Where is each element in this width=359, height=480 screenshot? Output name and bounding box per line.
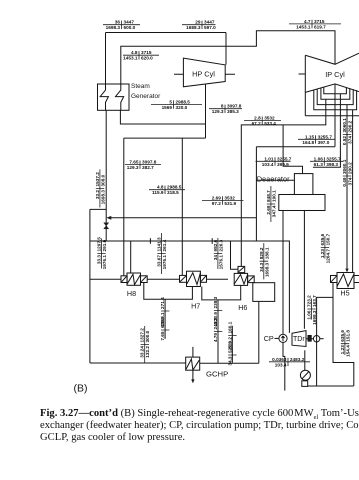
svg-text:2.69: 2.69 [212,195,222,200]
rotated label H7 water 33.67|1141.3 [156,233,167,274]
wire main steam horizontal [106,32,227,34]
wire H5 drain to condenser [333,283,354,387]
rotated label LP line 0.49|3060.1 [342,159,353,192]
label L5 cold reheat 5|2988.5 [151,100,202,111]
svg-text:H7: H7 [191,302,200,311]
svg-text:GCHP: GCHP [206,370,228,379]
svg-text:163.7: 163.7 [312,295,317,307]
svg-text:629.3: 629.3 [160,316,165,328]
wire drain downcomer right [231,326,233,363]
svg-text:H8: H8 [127,289,136,298]
wire drain downcomer mid [217,300,219,363]
svg-text:3715: 3715 [141,50,152,55]
svg-text:397.0: 397.0 [318,140,330,145]
svg-text:2.69: 2.69 [266,205,271,215]
rotated label feedwater spray 33.24|1327.2 [140,326,151,363]
svg-text:398.3: 398.3 [326,162,338,167]
svg-text:IP Cyl: IP Cyl [325,70,345,79]
drain H7 to H6 [202,285,241,300]
svg-text:TDr: TDr [293,336,305,343]
heater H5 [337,273,354,289]
label L1 main steam 36|3447 [103,20,140,31]
svg-text:347.4: 347.4 [271,205,276,217]
svg-text:3447: 3447 [204,20,215,25]
svg-text:226.3: 226.3 [218,239,223,251]
svg-text:374: 374 [348,136,353,144]
svg-text:1453.1: 1453.1 [296,24,311,29]
coupling shaft 2 [320,338,324,340]
svg-text:300.0: 300.0 [145,330,150,342]
svg-text:1141.3: 1141.3 [156,237,161,251]
label L7 H8 inlet 7.65|3097.8 [125,160,161,171]
svg-text:150.7: 150.7 [325,233,330,245]
svg-text:3255.7: 3255.7 [318,134,333,139]
svg-text:1569: 1569 [162,105,173,110]
svg-text:36: 36 [115,20,121,25]
svg-text:4.8: 4.8 [157,185,164,190]
svg-text:Generator: Generator [131,93,161,100]
svg-text:635.6: 635.6 [340,330,345,342]
svg-text:151.8: 151.8 [345,330,350,342]
H6 inlet valve box [238,266,245,272]
wire deaerator left inlet [256,179,294,181]
svg-text:H6: H6 [238,303,247,312]
heating surface bolt 1 [100,84,108,110]
svg-text:1.01: 1.01 [264,156,274,161]
svg-text:1576.1: 1576.1 [218,255,223,270]
heating surface bolt 2 [116,84,124,110]
svg-text:828.2: 828.2 [259,247,264,259]
wire LP steam to H5 [346,105,348,272]
H6 valve box diagonal [239,267,244,272]
heater H8 [127,273,141,285]
rotated label LP line 0.52|3060.1 [342,118,353,151]
svg-text:723.2: 723.2 [307,295,312,307]
condenser drain box [302,381,308,387]
wire TDr exhaust [304,350,306,370]
gas line arrowhead [191,379,194,383]
H6 right tab [248,276,255,283]
wire main steam drop into HP cylinder [225,33,227,65]
wire condenser to right [308,385,354,387]
svg-text:597.0: 597.0 [204,25,216,30]
H6 right tab diagonal [248,277,253,282]
H5 zigzag [337,274,354,287]
svg-text:129.3: 129.3 [212,109,224,114]
label L11 deaerator steam 1.06|3255.7 [310,156,343,167]
heater H6 [234,273,247,285]
coupling block [308,336,311,342]
deaerator head [294,174,313,195]
svg-text:1698.3: 1698.3 [264,262,269,277]
svg-text:600.0: 600.0 [124,25,136,30]
rotated label H8 water 33.3|1297.5 [96,237,107,270]
svg-text:3060.1: 3060.1 [342,159,347,174]
wire H6 second feed [231,241,239,269]
svg-text:33.67: 33.67 [156,255,161,267]
wire feedwater heater run H8 [90,278,121,280]
svg-text:385.3: 385.3 [227,109,239,114]
wire feedwater run H7-H6 [207,278,229,280]
rotated label H6 water 34|982.6 [213,238,224,269]
gas cooler GCHP [186,357,200,370]
wire condensate riser right [317,297,333,386]
rotated label drain split 7.65|629.3 [160,316,169,341]
svg-text:320.0: 320.0 [176,105,188,110]
steam generator SG [98,84,130,110]
wire gas line through GCHP [192,347,194,381]
svg-text:848.7: 848.7 [266,190,271,202]
label L12 TDr steam 2.69|3532 [202,195,244,206]
svg-text:164.8: 164.8 [302,140,314,145]
deaerator tank [279,195,325,211]
wire deaerator top inlet [283,125,302,174]
svg-text:67.2: 67.2 [252,121,262,126]
svg-text:399.9: 399.9 [277,162,289,167]
wire condensate bottom run [90,362,186,364]
caption [40,408,359,443]
IP nested duct U2 [317,89,353,105]
svg-text:619.7: 619.7 [314,24,326,29]
svg-text:2483.2: 2483.2 [290,357,305,362]
heater H7 [187,271,201,286]
svg-text:0.0363: 0.0363 [272,357,287,362]
wire feedwater run H8-H7 [147,278,179,280]
svg-text:7.65: 7.65 [129,160,139,165]
label L3 hot reheat right 4.7|3715 [289,19,341,30]
svg-text:522.2: 522.2 [227,341,232,353]
coupling circle [313,336,319,342]
CP dash [274,337,278,339]
wire CP discharge [283,343,285,391]
wire spray line with arrow [108,217,256,219]
drain H8 to H7 [144,283,193,300]
wire IP extraction to deaerator manifold [334,84,336,147]
arrowhead spray [106,216,111,220]
drain split stub [164,299,166,338]
valve X on feedwater riser [104,223,109,229]
svg-text:HP Cyl: HP Cyl [192,70,215,79]
label L9 IP extraction 1.15|3255.7 [298,134,335,145]
svg-text:0.49: 0.49 [342,177,347,187]
H7 left tab [180,275,187,282]
H6 zigzag [234,275,247,285]
svg-text:1.06: 1.06 [314,156,324,161]
svg-text:33.24: 33.24 [140,346,145,358]
wire IP extraction to H6 [241,99,325,266]
label L4 hot reheat 4.8|3715 [123,50,159,61]
wire tank to CP [282,211,284,335]
IP exhaust tent [305,84,359,93]
rotated label H7 drain 1220.9|238.3 [213,296,222,326]
wire extraction to H7 [181,138,183,275]
svg-text:1297.5: 1297.5 [96,237,101,252]
turbine IP cylinder [305,53,359,64]
svg-text:2988.5: 2988.5 [167,185,182,190]
svg-text:291.0: 291.0 [102,239,107,251]
svg-text:261.4: 261.4 [162,239,167,251]
H8 left tab diagonal [122,276,127,281]
svg-text:2.8: 2.8 [254,116,261,121]
svg-text:1.15: 1.15 [305,134,315,139]
svg-text:29: 29 [195,20,201,25]
svg-text:1.06: 1.06 [307,310,312,320]
wire cold reheat to SG [120,110,205,124]
svg-text:Deaerator: Deaerator [257,174,290,183]
svg-text:3060.1: 3060.1 [342,118,347,133]
svg-text:103.4: 103.4 [275,362,287,367]
svg-text:533.4: 533.4 [264,121,276,126]
label L8 H7 inlet 4.8|2988.5 [149,185,185,196]
svg-text:620.0: 620.0 [141,56,153,61]
svg-text:190.1: 190.1 [271,190,276,202]
svg-text:188.1: 188.1 [264,247,269,259]
wire HP exhaust downcomer [205,84,207,138]
svg-text:3532: 3532 [264,116,275,121]
svg-text:531.9: 531.9 [224,201,236,206]
wire spray feed into H8 shell [130,241,132,273]
label L10 deaerator steam 1.01|3255.7 [256,156,292,167]
svg-text:34.3: 34.3 [227,356,232,366]
svg-text:2988.5: 2988.5 [176,100,191,105]
svg-text:Steam: Steam [131,83,150,90]
rotated label H5 drain 1.23|635.6 [340,330,351,357]
tick crossing 1 [149,238,151,244]
svg-text:318.5: 318.5 [167,190,179,195]
svg-text:3447: 3447 [124,20,135,25]
svg-text:3715: 3715 [314,19,325,24]
wire hot reheat from steam generator [121,31,335,84]
H7 right tab diagonal [201,276,206,282]
rotated label deaerator outlet 2.69|848.7 [266,186,277,222]
rotated label H5 water 34.3|828.2 [259,243,270,279]
svg-text:248.2: 248.2 [213,317,218,329]
svg-text:290.2: 290.2 [348,120,353,132]
svg-text:1698.3: 1698.3 [312,310,317,325]
wire H6 valve to heater [240,272,242,275]
H8 zigzag [127,274,140,284]
wire feedwater jog [90,208,106,210]
svg-text:5: 5 [169,100,172,105]
coupling shaft [306,338,313,340]
svg-text:33.2: 33.2 [95,190,100,200]
svg-text:3532: 3532 [224,195,235,200]
rotated label CP inlet 1.06|723.2 [307,295,318,325]
H6 drain cooler box [253,283,275,302]
svg-text:132.2: 132.2 [145,346,150,358]
rotated label condensate 1.23|635.6 [320,233,331,263]
H8 left tab [121,276,127,283]
svg-text:34: 34 [213,255,218,261]
svg-text:8: 8 [221,104,224,109]
svg-text:115.9: 115.9 [152,190,164,195]
svg-text:33.3: 33.3 [96,255,101,265]
svg-text:1264.7: 1264.7 [325,249,330,264]
wire tank to TDr condenser [303,211,305,329]
wire extraction manifold [124,137,206,139]
svg-text:1327.2: 1327.2 [140,328,145,343]
svg-text:4.8: 4.8 [131,50,138,55]
svg-text:H5: H5 [340,289,349,298]
condenser diagonal [302,372,309,379]
H7 right tab [200,275,206,282]
svg-text:61.3: 61.3 [314,162,324,167]
label L13 TDr exhaust 0.0363|2483.2 [269,357,310,368]
svg-text:374: 374 [348,177,353,185]
svg-text:1.23: 1.23 [340,345,345,355]
H5 left tab diagonal [331,276,336,282]
svg-text:1976.1: 1976.1 [162,255,167,270]
svg-text:97.2: 97.2 [212,201,222,206]
rotated label GCHP line 4.79|248.2 [213,317,222,342]
wire deaerator manifold downcomer [255,147,257,241]
svg-text:7.65: 7.65 [160,331,165,341]
label L6 extraction 8|3097.8 [209,104,242,115]
svg-text:1688.3: 1688.3 [186,25,201,30]
IP shaft tick [299,73,306,75]
svg-text:238.3: 238.3 [213,296,218,308]
svg-text:271.4: 271.4 [160,297,165,309]
svg-text:290.2: 290.2 [348,162,353,174]
svg-text:1.23: 1.23 [320,249,325,259]
wire feedwater left downcomer [89,209,91,363]
svg-text:160.1: 160.1 [227,321,232,333]
H8 right tab [141,276,148,283]
turbine drive TDr [292,331,306,347]
condenser circle [300,370,310,380]
HP shaft ticks [174,73,235,75]
H5 right tab [354,276,359,283]
rotated label 34.3|522.2 [227,341,236,366]
IP nested duct U4 [324,87,347,94]
svg-text:0.52: 0.52 [342,136,347,146]
svg-text:34.3: 34.3 [259,262,264,272]
svg-text:1698.3: 1698.3 [100,190,105,205]
svg-text:1698.3: 1698.3 [106,25,121,30]
rotated label 34.3|522.2 [227,321,236,348]
rotated label feedwater 33.2|1537.2 [95,170,106,208]
svg-text:1537.2: 1537.2 [95,172,100,187]
wire main steam riser from steam generator [105,33,107,85]
H7 zigzag [187,273,201,285]
svg-text:3097.8: 3097.8 [142,160,157,165]
svg-text:1976.1: 1976.1 [102,255,107,270]
turbine HP cylinder [183,58,225,87]
IP nested duct U1 [314,90,357,110]
svg-text:154.4: 154.4 [345,345,350,357]
wire deaerator manifold horizontal [256,146,335,148]
wire feedwater riser to SG [105,110,107,241]
svg-text:129.3: 129.3 [127,165,139,170]
svg-text:103.4: 103.4 [262,162,274,167]
svg-text:4.79: 4.79 [213,333,218,343]
H5 left tab [331,276,338,283]
wire LP steam right border [352,110,354,273]
svg-text:382.7: 382.7 [142,165,154,170]
label L14 IP extraction 2.8|3532 [244,116,281,127]
svg-text:3097.8: 3097.8 [227,104,242,109]
GCHP zigzag [186,359,199,370]
svg-text:3255.7: 3255.7 [326,156,341,161]
wire condensate run right of GCHP [200,362,259,364]
H5 feed arrowhead [345,269,348,273]
wire H6 drain downcomer [258,301,260,363]
svg-text:(B): (B) [74,383,88,395]
label L2 main steam 29|3447 [182,20,216,31]
rotated label H8 drain 1180.1|271.4 [160,297,169,327]
wire deaerator right feed [313,94,341,168]
CP arrow [281,336,284,341]
svg-text:308.0: 308.0 [100,174,105,186]
wire TDr steam line [90,241,290,333]
svg-text:CP: CP [264,334,274,343]
tick crossing 2 [211,238,213,244]
svg-text:635.6: 635.6 [320,233,325,245]
H7 left tab diagonal [180,276,186,282]
svg-text:4.7: 4.7 [304,19,311,24]
svg-text:3255.7: 3255.7 [277,156,292,161]
svg-text:1453.1: 1453.1 [123,56,138,61]
svg-text:982.6: 982.6 [213,239,218,251]
pump CP circle [279,334,287,342]
wire extraction to H8 [123,138,125,276]
IP nested duct U3 [321,88,350,99]
H8 right tab diagonal [141,276,146,281]
